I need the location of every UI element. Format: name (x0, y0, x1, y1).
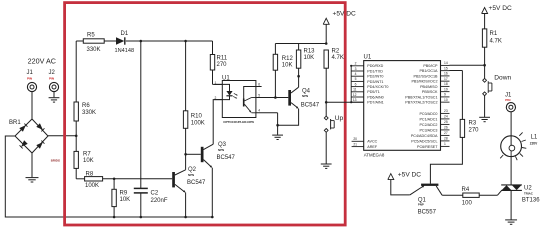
svg-text:270: 270 (217, 62, 228, 68)
svg-text:PD6/AIN0: PD6/AIN0 (367, 95, 383, 99)
svg-text:16: 16 (444, 72, 448, 76)
svg-text:R13: R13 (304, 49, 316, 55)
svg-text:Down: Down (494, 74, 511, 81)
svg-text:PD3/INT1: PD3/INT1 (367, 80, 383, 84)
svg-text:10: 10 (444, 98, 448, 102)
svg-text:PC3/ADC3: PC3/ADC3 (419, 128, 437, 132)
svg-text:AVCC: AVCC (367, 140, 377, 144)
svg-text:PC2/ADC2: PC2/ADC2 (419, 123, 437, 127)
svg-text:270: 270 (469, 128, 480, 134)
svg-text:14: 14 (444, 61, 448, 65)
svg-text:R2: R2 (332, 49, 340, 55)
svg-text:4.7K: 4.7K (490, 39, 502, 45)
svg-text:U1: U1 (364, 55, 372, 61)
svg-text:NPN: NPN (302, 94, 308, 98)
svg-text:R7: R7 (83, 152, 91, 158)
svg-text:OPTOCOUPLER-NPN: OPTOCOUPLER-NPN (223, 120, 253, 124)
svg-text:R5: R5 (87, 33, 95, 39)
svg-text:PB5/SCK: PB5/SCK (422, 90, 438, 94)
svg-text:PD5/T1: PD5/T1 (367, 90, 380, 94)
svg-text:20: 20 (353, 137, 357, 141)
svg-text:ATMEGA8: ATMEGA8 (364, 152, 385, 157)
svg-text:C2: C2 (151, 191, 159, 197)
svg-text:PNP: PNP (418, 202, 424, 206)
svg-text:U2: U2 (524, 185, 532, 191)
svg-text:19: 19 (444, 87, 448, 91)
svg-text:12: 12 (353, 93, 357, 97)
svg-text:5: 5 (258, 93, 260, 97)
svg-text:15: 15 (444, 66, 448, 70)
svg-text:PD4/XCK/T0: PD4/XCK/T0 (367, 85, 388, 89)
svg-text:28: 28 (444, 137, 448, 141)
svg-text:23: 23 (444, 109, 448, 113)
svg-text:PB1/OC1A: PB1/OC1A (419, 69, 438, 73)
svg-text:100K: 100K (191, 120, 205, 126)
svg-text:1: 1 (215, 81, 217, 85)
svg-text:NPN: NPN (218, 148, 224, 152)
svg-text:1N4148: 1N4148 (115, 48, 135, 54)
svg-text:BC547: BC547 (187, 180, 206, 186)
svg-text:220V AC: 220V AC (28, 56, 56, 65)
svg-text:10K: 10K (282, 63, 293, 69)
svg-text:1: 1 (444, 142, 446, 146)
svg-text:+5V DC: +5V DC (398, 171, 422, 178)
svg-text:2: 2 (355, 62, 357, 66)
svg-text:PD2/INT0: PD2/INT0 (367, 75, 383, 79)
svg-text:PC4/ADC4/SDA: PC4/ADC4/SDA (411, 134, 438, 138)
svg-text:18: 18 (444, 82, 448, 86)
svg-text:PC0/ADC0: PC0/ADC0 (419, 112, 437, 116)
svg-text:+5V DC: +5V DC (333, 11, 357, 18)
svg-text:21: 21 (353, 142, 357, 146)
svg-text:R1: R1 (490, 31, 498, 37)
svg-text:BRIDG: BRIDG (51, 159, 61, 163)
svg-text:R8: R8 (86, 171, 94, 177)
svg-text:R4: R4 (462, 187, 470, 193)
svg-text:BT136: BT136 (522, 197, 540, 203)
svg-text:BC547: BC547 (301, 103, 320, 109)
svg-text:4.7K: 4.7K (332, 55, 344, 61)
svg-text:J1: J1 (27, 70, 34, 76)
svg-text:26: 26 (444, 126, 448, 130)
svg-text:10K: 10K (120, 197, 131, 203)
svg-text:25: 25 (444, 120, 448, 124)
svg-text:AREF: AREF (367, 145, 378, 149)
svg-text:+5V DC: +5V DC (489, 5, 513, 12)
svg-text:BC547: BC547 (217, 155, 236, 161)
svg-text:220V: 220V (530, 141, 538, 145)
svg-text:4: 4 (355, 72, 357, 76)
svg-text:9: 9 (444, 93, 446, 97)
svg-text:10K: 10K (304, 55, 315, 61)
svg-text:220nF: 220nF (151, 198, 168, 204)
svg-text:PD0/RXD: PD0/RXD (367, 64, 383, 68)
svg-text:NPN: NPN (188, 173, 194, 177)
svg-text:13: 13 (353, 98, 357, 102)
svg-text:17: 17 (444, 77, 448, 81)
svg-text:PD7/AIN1: PD7/AIN1 (367, 101, 383, 105)
svg-text:PB0/ICP: PB0/ICP (423, 64, 438, 68)
svg-text:R11: R11 (217, 56, 228, 62)
svg-text:Up: Up (335, 115, 344, 122)
svg-text:11: 11 (353, 88, 357, 92)
svg-text:100K: 100K (85, 183, 99, 189)
svg-text:3: 3 (355, 67, 357, 71)
svg-text:PB6/XTAL1/TOSC1: PB6/XTAL1/TOSC1 (405, 95, 437, 99)
svg-text:27: 27 (444, 131, 448, 135)
svg-text:330K: 330K (82, 110, 96, 116)
svg-text:R9: R9 (120, 190, 128, 196)
svg-text:2: 2 (215, 96, 217, 100)
svg-text:PB7/XTAL2/TOSC2: PB7/XTAL2/TOSC2 (405, 101, 437, 105)
svg-text:PC5/ADC5/SCL: PC5/ADC5/SCL (411, 139, 437, 143)
svg-text:4: 4 (258, 109, 260, 113)
svg-text:PB4/MISO: PB4/MISO (420, 85, 438, 89)
svg-text:Q2: Q2 (188, 167, 197, 173)
svg-text:10K: 10K (83, 158, 94, 164)
svg-text:PC6/RESET: PC6/RESET (417, 145, 438, 149)
svg-text:D1: D1 (121, 31, 129, 37)
svg-text:BC557: BC557 (418, 209, 437, 215)
svg-text:R10: R10 (191, 114, 203, 120)
svg-text:330K: 330K (87, 47, 101, 53)
svg-text:R12: R12 (282, 56, 294, 62)
svg-text:PIN: PIN (49, 76, 55, 80)
svg-text:PIN: PIN (505, 98, 511, 102)
svg-text:100: 100 (462, 201, 473, 207)
svg-text:PIN: PIN (27, 76, 33, 80)
svg-text:6: 6 (355, 82, 357, 86)
svg-text:PD1/TXD: PD1/TXD (367, 69, 383, 73)
svg-text:5: 5 (355, 77, 357, 81)
svg-text:PC1/ADC1: PC1/ADC1 (419, 117, 437, 121)
svg-text:R6: R6 (82, 103, 90, 109)
svg-text:24: 24 (444, 115, 448, 119)
svg-text:J2: J2 (49, 70, 56, 76)
svg-text:TRIAC: TRIAC (524, 192, 534, 196)
svg-text:PB3/MOSI/OC2: PB3/MOSI/OC2 (411, 80, 437, 84)
svg-text:BR1: BR1 (9, 120, 21, 126)
svg-text:R3: R3 (469, 121, 477, 127)
svg-text:6: 6 (258, 82, 260, 86)
svg-text:L1: L1 (531, 135, 538, 141)
svg-text:PB2/SS/OC1B: PB2/SS/OC1B (414, 74, 439, 78)
